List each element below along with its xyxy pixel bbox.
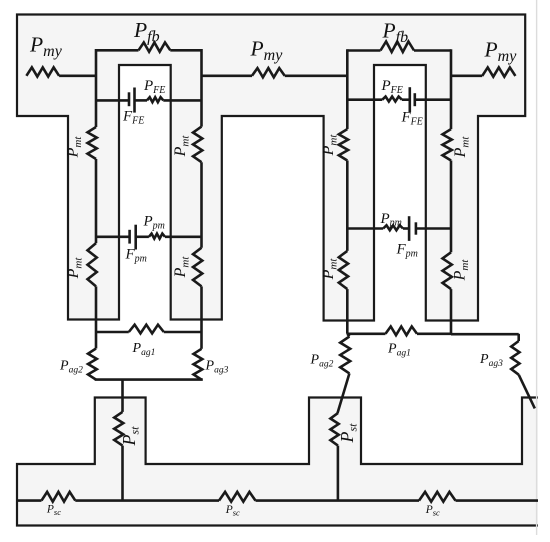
svg-text:Pag3: Pag3 (205, 359, 229, 376)
svg-text:FFE: FFE (401, 110, 423, 128)
svg-text:Ppm: Ppm (143, 214, 165, 232)
svg-text:Pag2: Pag2 (310, 353, 334, 370)
svg-text:Pag2: Pag2 (59, 358, 83, 375)
svg-text:Pag1: Pag1 (387, 342, 411, 359)
svg-text:PFE: PFE (381, 78, 403, 96)
svg-text:Pag3: Pag3 (479, 352, 503, 369)
svg-text:Pag1: Pag1 (132, 341, 156, 358)
svg-text:Fpm: Fpm (396, 242, 418, 260)
svg-text:Ppm: Ppm (380, 211, 402, 229)
svg-text:PFE: PFE (143, 78, 165, 96)
svg-text:FFE: FFE (122, 109, 144, 127)
